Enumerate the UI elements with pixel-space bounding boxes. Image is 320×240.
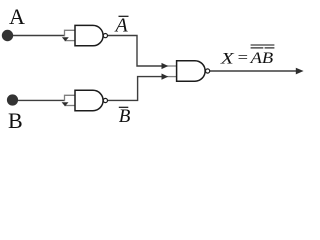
svg-text:B: B [8,108,23,133]
svg-text:A: A [9,4,25,29]
svg-text:A: A [114,15,129,37]
svg-text:AB: AB [249,50,273,67]
svg-text:B: B [119,106,131,127]
svg-text:X: X [220,51,236,68]
svg-text:=: = [238,50,248,67]
